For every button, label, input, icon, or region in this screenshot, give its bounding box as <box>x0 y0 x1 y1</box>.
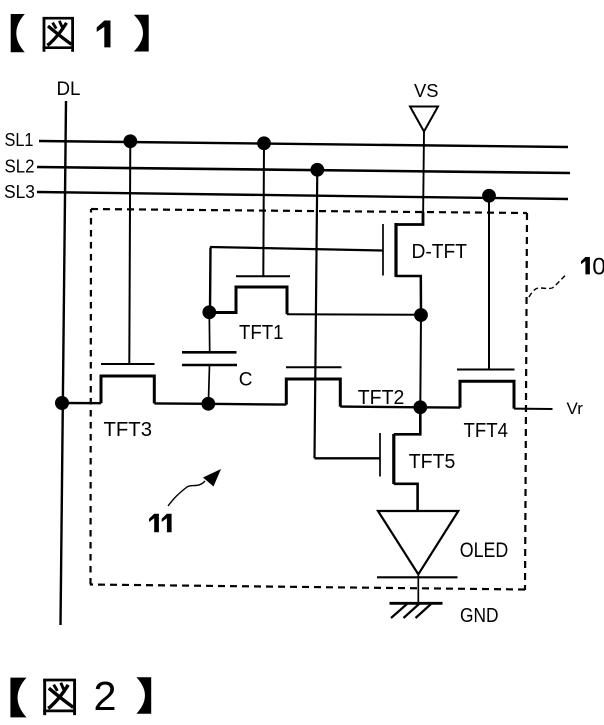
label 11 <box>149 514 172 533</box>
transistor D-TFT channel <box>394 223 397 277</box>
dashed block boundary 10 top edge <box>91 209 527 213</box>
svg-text:2: 2 <box>94 673 117 719</box>
dashed block boundary 10 right edge <box>525 213 527 590</box>
transistor TFT3 gate lead <box>129 141 130 364</box>
svg-text:SL3: SL3 <box>4 181 35 202</box>
svg-text:0: 0 <box>592 253 604 280</box>
wire SL1 scan line <box>39 141 568 147</box>
diode OLED cathode bar <box>377 576 458 578</box>
transistor TFT5 gate bar <box>379 433 381 477</box>
terminal VS triangle <box>410 107 438 132</box>
ground bar <box>390 602 443 605</box>
ground hatch stroke 2 <box>404 604 420 618</box>
wire from D-TFT node to rail node <box>419 315 422 407</box>
leader arrow head for 11 <box>203 469 221 487</box>
svg-text:TFT3: TFT3 <box>104 419 153 441</box>
wire SL2 branch down to TFT2 and TFT5 <box>315 170 318 459</box>
transistor TFT4 gate bar <box>457 369 515 371</box>
wire SL3 scan line <box>37 192 568 199</box>
transistor D-TFT gate wire from node G <box>210 247 383 251</box>
transistor TFT3 channel hat <box>101 376 154 403</box>
node dot capacitor bottom on rail <box>201 397 215 411</box>
svg-text:TFT5: TFT5 <box>409 451 456 473</box>
svg-text:C: C <box>239 370 253 391</box>
transistor TFT5 drain lead to center node <box>394 407 421 434</box>
transistor TFT2 gate bar <box>286 366 342 368</box>
node dot on SL1 for TFT1 gate <box>257 136 271 150</box>
node dot on SL1 for TFT3 gate <box>123 134 137 148</box>
figure 2 heading left bracket <box>10 678 26 718</box>
transistor TFT3 gate bar <box>101 363 155 365</box>
wire VS vertical <box>423 132 424 225</box>
transistor TFT1 gate lead <box>262 143 265 276</box>
wire TFT1 drain to D-TFT node <box>287 313 421 315</box>
wire SL2 scan line <box>37 167 570 173</box>
svg-text:VS: VS <box>414 81 439 101</box>
dashed block boundary 10 left edge <box>89 209 92 585</box>
ground hatch stroke 3 <box>416 604 432 618</box>
svg-text:SL2: SL2 <box>5 156 35 177</box>
svg-text:TFT4: TFT4 <box>464 420 509 442</box>
diode OLED anode triangle <box>378 511 458 574</box>
svg-text:Vr: Vr <box>567 399 584 418</box>
wire OLED cathode to ground <box>417 574 419 603</box>
capacitor C bottom plate <box>182 364 237 367</box>
transistor TFT5 gate wire <box>315 457 380 459</box>
wire node G up to D-TFT gate wire <box>209 248 212 313</box>
figure 1 heading left bracket <box>11 14 25 52</box>
node dot on SL3 <box>482 189 496 203</box>
svg-text:SL1: SL1 <box>5 129 34 150</box>
node dot center rail <box>413 400 427 414</box>
wire rail TFT2 to center node <box>340 405 420 408</box>
node dot on SL2 <box>310 163 324 177</box>
wire rail cap node to TFT2 <box>208 403 286 406</box>
transistor D-TFT gate bar <box>382 224 384 276</box>
wire DL data line vertical <box>61 101 67 625</box>
capacitor C top plate <box>182 351 237 354</box>
transistor D-TFT source lead down <box>396 276 421 315</box>
figure 2 heading right bracket <box>136 677 151 713</box>
wire rail DL to TFT3 <box>62 402 101 405</box>
svg-text:GND: GND <box>460 605 499 627</box>
transistor TFT2 channel hat <box>286 379 340 407</box>
svg-text:D-TFT: D-TFT <box>412 241 468 263</box>
transistor TFT5 source lead to OLED <box>394 484 418 511</box>
svg-text:TFT1: TFT1 <box>239 322 284 344</box>
leader arrow tail for 11 <box>168 481 205 506</box>
figure 1 heading numeral 1 <box>97 21 111 48</box>
transistor TFT4 gate lead <box>488 196 490 369</box>
figure 2 heading kanji ZU (figure) <box>43 679 76 715</box>
capacitor C bottom lead <box>208 365 209 404</box>
node dot below D-TFT <box>414 308 428 322</box>
svg-text:DL: DL <box>57 78 81 100</box>
transistor TFT4 channel hat <box>460 381 514 408</box>
dashed block boundary 10 bottom edge <box>90 585 525 590</box>
transistor TFT5 channel <box>392 434 395 484</box>
transistor TFT1 channel hat <box>209 287 287 314</box>
transistor TFT1 gate bar <box>236 275 290 277</box>
label 10 <box>581 257 590 274</box>
wire rail center node to TFT4 <box>420 406 460 409</box>
transistor D-TFT drain lead to VS <box>396 212 423 225</box>
ground hatch stroke 1 <box>391 604 407 618</box>
svg-text:OLED: OLED <box>460 539 509 562</box>
node dot on DL <box>55 396 69 410</box>
node dot G capacitor top node <box>202 305 216 319</box>
wire rail TFT3 to cap node <box>154 402 208 405</box>
leader line to label 10 <box>529 274 567 297</box>
figure 1 heading kanji ZU (figure) <box>43 18 74 52</box>
figure 1 heading right bracket <box>134 15 149 52</box>
wire rail TFT4 to Vr terminal <box>514 408 553 410</box>
capacitor C top lead <box>208 312 210 352</box>
